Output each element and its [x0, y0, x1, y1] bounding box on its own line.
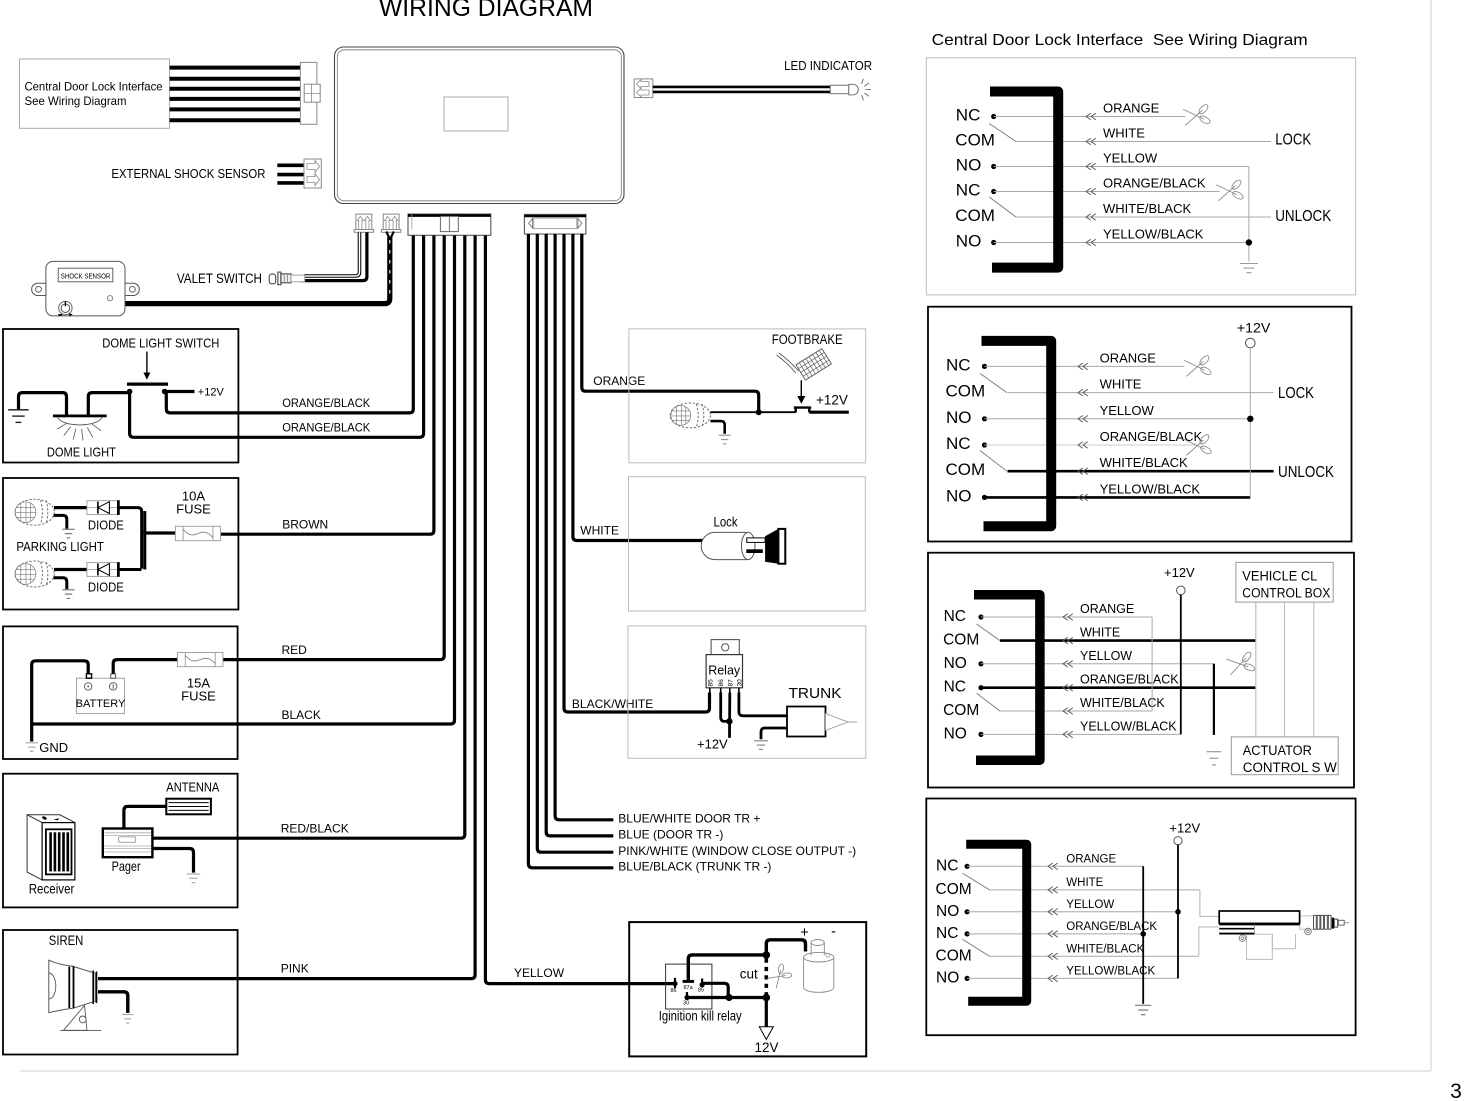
svg-text:ACTUATOR: ACTUATOR — [1243, 743, 1312, 758]
svg-text:ORANGE/BLACK: ORANGE/BLACK — [282, 421, 370, 435]
panel 2 scissors on ORANGE — [1184, 354, 1213, 380]
panel 2 wire +12V feed — [1249, 348, 1251, 498]
panel 3 COM levers — [977, 624, 1001, 711]
door-lock panel 1 box — [926, 58, 1355, 295]
wire footbrake lamp ground lead — [711, 421, 725, 434]
parking light lamp #1 — [15, 499, 54, 525]
siren enclosure box — [3, 930, 238, 1055]
svg-text:YELLOW/BLACK: YELLOW/BLACK — [1100, 481, 1201, 496]
svg-text:NO: NO — [944, 655, 967, 672]
parking light lamp #2 — [15, 561, 54, 587]
panel 1 scissors on ORANGE/BLACK — [1216, 178, 1245, 204]
panel 3 ground (yellow tap) — [1207, 752, 1222, 765]
svg-text:YELLOW: YELLOW — [1080, 649, 1132, 663]
panel 1 wire color labels — [1103, 101, 1206, 242]
footbrake callout box — [629, 329, 866, 463]
label PARKING LIGHT — [16, 539, 104, 554]
svg-text:DIODE: DIODE — [88, 580, 124, 595]
wire lamp1 to diode D1 — [54, 506, 87, 509]
svg-text:LOCK: LOCK — [1275, 132, 1312, 149]
svg-text:CONTROL BOX: CONTROL BOX — [1242, 586, 1330, 601]
svg-text:COM: COM — [936, 947, 972, 964]
svg-text:Receiver: Receiver — [29, 880, 75, 896]
door-lock panel 3 box — [928, 553, 1354, 788]
svg-text:NO: NO — [946, 408, 972, 427]
svg-text:RED: RED — [282, 643, 308, 657]
label BLACK — [282, 708, 321, 722]
svg-text:30: 30 — [683, 1001, 689, 1007]
svg-text:YELLOW/BLACK: YELLOW/BLACK — [1066, 965, 1155, 977]
wire diode D1 junction — [119, 508, 142, 569]
svg-text:ORANGE: ORANGE — [1066, 853, 1116, 865]
svg-text:EXTERNAL SHOCK SENSOR: EXTERNAL SHOCK SENSOR — [111, 166, 265, 181]
wire pin 85 to 12V line — [702, 983, 728, 997]
wire RED (J1-4 to 15A fuse) — [222, 236, 444, 660]
battery enclosure box — [3, 626, 238, 759]
svg-text:BLUE (DOOR TR -): BLUE (DOOR TR -) — [618, 828, 723, 842]
scissors (ignition cut) — [765, 962, 794, 991]
panel 3 arrow marks — [1063, 614, 1073, 738]
label Receiver — [29, 880, 75, 896]
wire siren ground lead — [98, 992, 128, 1013]
svg-text:+12V: +12V — [816, 393, 848, 408]
panel 4 label +12V — [1169, 821, 1200, 836]
label BLUE/BLACK (TRUNK TR -) — [618, 859, 771, 873]
label DIODE (D1) — [88, 518, 124, 533]
wire relay pins 86+87 to +12V — [721, 693, 733, 738]
wire ORANGE/BLACK #1 (J1-1 to dome switch +12V side) — [166, 236, 413, 413]
wire BLACK/WHITE (J2-5 to trunk relay pin 85) — [564, 234, 710, 712]
svg-text:BLUE/BLACK (TRUNK TR -): BLUE/BLACK (TRUNK TR -) — [618, 859, 771, 873]
label Pager — [112, 858, 141, 874]
svg-text:YELLOW: YELLOW — [1100, 403, 1155, 418]
label RED — [282, 643, 308, 657]
label - (coil negative) — [831, 924, 836, 940]
panel 4 junction node (YELLOW/+12V) — [1175, 909, 1181, 915]
fuse 15A — [178, 653, 223, 667]
trunk relay callout box — [628, 626, 866, 758]
svg-text:NO: NO — [956, 156, 982, 175]
panel 2 wire color labels — [1100, 350, 1203, 496]
connector CN2 (3-pin, external shock sensor) — [304, 159, 321, 188]
svg-text:WHITE: WHITE — [1066, 877, 1103, 889]
svg-text:+12V: +12V — [1169, 821, 1200, 836]
svg-text:UNLOCK: UNLOCK — [1278, 464, 1335, 481]
panel 4 connector bracket — [966, 844, 1026, 1001]
svg-text:UNLOCK: UNLOCK — [1275, 208, 1332, 225]
panel 1 junction node (YELLOW/BLACK) — [1246, 239, 1252, 245]
wire BROWN (J1-3 to parking light fuse) — [220, 236, 434, 535]
panel 2 pin contacts — [982, 364, 987, 500]
svg-text:87a: 87a — [684, 985, 694, 991]
svg-text:ANTENNA: ANTENNA — [166, 779, 219, 794]
svg-text:YELLOW/BLACK: YELLOW/BLACK — [1103, 227, 1204, 242]
wire lamp2 ground lead — [54, 578, 67, 589]
wire BLUE DOOR TR- (J2-3 stub) — [546, 234, 613, 836]
trunk release solenoid — [787, 707, 857, 737]
svg-text:COM: COM — [955, 131, 995, 150]
connector CN3 (2-pin, LED) — [634, 79, 653, 98]
label BLACK/WHITE (trunk relay wire) — [572, 697, 653, 711]
panel 4 pin contacts — [965, 864, 970, 981]
label BROWN — [282, 518, 328, 532]
panel 3 wire color labels — [1080, 602, 1179, 733]
panel 2 label +12V — [1237, 319, 1271, 335]
panel 4 COM levers — [963, 873, 990, 956]
dome light switch pointer arrow — [143, 352, 150, 380]
svg-text:CONTROL S W: CONTROL S W — [1243, 760, 1337, 775]
wire BLUE/WHITE DOOR TR+ (J2-4 stub) — [555, 234, 613, 820]
connector CN1 (6-pin, door lock interface) — [300, 62, 320, 124]
connector J2 (7-pin harness) — [524, 214, 586, 234]
svg-text:PINK: PINK — [281, 962, 309, 976]
panel 3 pin contacts — [978, 614, 983, 737]
panel 2 COM levers — [980, 373, 1007, 471]
panel 2 row wires — [985, 366, 1274, 497]
svg-text:+: + — [800, 925, 808, 941]
svg-text:SHOCK SENSOR: SHOCK SENSOR — [61, 271, 111, 280]
svg-text:ORANGE/BLACK: ORANGE/BLACK — [1103, 176, 1206, 191]
footbrake pedal — [777, 349, 832, 380]
panel 4 ground (panel 4) — [1135, 1005, 1151, 1014]
svg-text:cut: cut — [740, 967, 758, 982]
label +12V (footbrake) — [816, 393, 848, 408]
svg-text:ORANGE/BLACK: ORANGE/BLACK — [1080, 673, 1179, 687]
svg-text:RED/BLACK: RED/BLACK — [281, 822, 349, 836]
dome light switch SW2 — [127, 384, 195, 394]
LED indicator wire pair — [653, 87, 830, 92]
svg-text:VEHICLE CL: VEHICLE CL — [1242, 569, 1317, 584]
svg-text:85: 85 — [698, 987, 704, 993]
panel 3 row wires — [981, 617, 1256, 734]
footbrake lamp — [670, 403, 710, 428]
panel 1 ground (panel 1) — [1240, 264, 1258, 273]
3-wire harness to external shock sensor — [277, 165, 304, 183]
panel 4 row wires — [967, 866, 1200, 978]
footbrake arrow — [797, 380, 805, 404]
relay K2 pin 30 — [684, 992, 689, 1000]
svg-text:NO: NO — [936, 903, 959, 920]
battery B1 — [76, 674, 126, 714]
panel 2 label UNLOCK — [1278, 464, 1335, 481]
shock sensor module — [32, 261, 140, 316]
relay K2 pin 85 — [700, 979, 705, 988]
valet switch SW1 — [269, 272, 305, 285]
svg-text:FUSE: FUSE — [176, 502, 211, 517]
panel 3 ACTUATOR CONTROL S W box — [1231, 737, 1338, 775]
panel 1 contact labels NC COM NO — [955, 106, 995, 251]
dome light enclosure box — [3, 329, 238, 463]
callout box: Central Door Lock Interface — [20, 59, 170, 128]
label SIREN — [49, 933, 84, 948]
svg-text:BLACK: BLACK — [282, 708, 321, 722]
wire BLACK (J1-5 to battery ground) — [32, 236, 455, 725]
label YELLOW — [514, 966, 565, 980]
svg-text:Central Door Lock Interface: Central Door Lock Interface — [25, 79, 163, 93]
svg-text:NC: NC — [956, 181, 981, 200]
panel 2 +12V terminal circle — [1246, 338, 1256, 348]
wire battery positive to 15A fuse — [113, 660, 178, 674]
receiver-pager enclosure box — [3, 774, 238, 908]
label 10A FUSE — [176, 489, 211, 517]
door-lock panel 4 box — [926, 799, 1355, 1036]
svg-text:ORANGE: ORANGE — [1103, 101, 1160, 116]
svg-text:ORANGE: ORANGE — [1100, 350, 1157, 365]
label ORANGE/BLACK #1 — [282, 396, 370, 410]
ground GND (battery) — [26, 743, 38, 752]
label BLUE (DOOR TR -) — [618, 828, 723, 842]
wire lamp2 to diode D2 — [54, 568, 87, 571]
svg-text:LOCK: LOCK — [1278, 385, 1315, 402]
label 12V — [754, 1040, 778, 1055]
label EXTERNAL SHOCK SENSOR — [111, 166, 265, 181]
svg-text:ORANGE: ORANGE — [1080, 602, 1134, 616]
svg-text:ORANGE/BLACK: ORANGE/BLACK — [282, 396, 370, 410]
panel 4 junction node (ORANGE/BLACK jumper) — [1140, 931, 1146, 937]
panel 1 COM levers — [989, 124, 1016, 218]
ground (pager) — [187, 874, 201, 883]
wire trunk solenoid ground lead — [761, 728, 787, 739]
svg-text:BROWN: BROWN — [282, 518, 328, 532]
connector P1 (2-pin, valet switch) — [354, 214, 374, 232]
panel 4 wire color labels — [1066, 853, 1157, 977]
shock sensor cable (2-wire) — [125, 232, 394, 304]
svg-text:Central Door Lock Interface S: Central Door Lock Interface See Wiring D… — [932, 32, 1308, 49]
label + (coil positive) — [800, 925, 808, 941]
panel 3 connector bracket — [974, 595, 1040, 760]
valet switch wire (black) — [300, 232, 367, 280]
svg-text:VALET SWITCH: VALET SWITCH — [177, 271, 262, 286]
relay K1 pin numbers 85 86 87 30 — [707, 679, 743, 687]
wire lamp to dome switch — [88, 393, 129, 415]
svg-text:GND: GND — [39, 740, 68, 755]
svg-text:COM: COM — [955, 206, 995, 225]
svg-text:Iginition kill relay: Iginition kill relay — [659, 1009, 742, 1024]
right title: Central Door Lock Interface See Wiring Diagram — [932, 32, 1308, 49]
svg-text:+12V: +12V — [697, 737, 728, 752]
wire PINK/WHITE window close (J2-2 stub) — [537, 234, 613, 852]
svg-text:Relay: Relay — [708, 664, 741, 678]
wire pin 30 to 12V arrow — [687, 994, 770, 1027]
label DIODE (D2) — [88, 580, 124, 595]
svg-text:YELLOW: YELLOW — [1066, 899, 1114, 911]
12V arrow terminal — [759, 1027, 773, 1040]
ground (parking light 1) — [62, 529, 74, 538]
label +12V (dome switch) — [198, 386, 225, 398]
label cut — [740, 967, 758, 982]
svg-text:COM: COM — [943, 702, 979, 719]
svg-text:86: 86 — [718, 679, 725, 687]
label ORANGE (footbrake wire) — [593, 374, 645, 388]
diode D1 — [87, 500, 120, 515]
wire junction to coil + terminal — [766, 940, 805, 953]
label PINK — [281, 962, 309, 976]
panel 3 VEHICLE CL CONTROL BOX — [1236, 562, 1333, 602]
panel 1 wire YELLOW to YELLOW/BLACK jumper — [1248, 167, 1250, 262]
svg-text:LED INDICATOR: LED INDICATOR — [784, 58, 872, 73]
svg-text:NO: NO — [936, 969, 959, 986]
label RED/BLACK — [281, 822, 349, 836]
svg-text:WHITE: WHITE — [1103, 126, 1145, 141]
module display window — [444, 97, 508, 131]
panel 1 scissors on ORANGE — [1183, 103, 1212, 129]
panel 4 +12V terminal circle — [1174, 837, 1182, 845]
ground (footbrake lamp) — [719, 435, 731, 444]
ground (siren) — [122, 1015, 133, 1024]
svg-text:COM: COM — [946, 382, 986, 401]
antenna — [166, 799, 211, 815]
connector P2 (2-pin, shock sensor) — [381, 214, 401, 232]
svg-text:TRUNK: TRUNK — [789, 686, 842, 702]
label +12V (trunk relay) — [697, 737, 728, 752]
panel 4 wire ORANGE jumper to ground — [1142, 866, 1144, 1004]
svg-text:DIODE: DIODE — [88, 518, 124, 533]
svg-text:NO: NO — [946, 486, 972, 505]
svg-text:+12V: +12V — [1164, 565, 1195, 580]
panel 3 control box leads — [1256, 602, 1314, 737]
svg-text:BATTERY: BATTERY — [76, 698, 126, 710]
wire dome ground to lamp — [19, 393, 67, 415]
panel 3 scissors on YELLOW — [1226, 650, 1257, 678]
diode D2 — [87, 562, 120, 577]
wire relay pin 30 to trunk solenoid — [739, 693, 787, 716]
label ANTENNA — [166, 779, 219, 794]
wire battery negative to ground and BLACK — [32, 661, 88, 742]
panel 3 contact labels NC COM NO — [943, 608, 979, 742]
svg-text:BLACK/WHITE: BLACK/WHITE — [572, 697, 653, 711]
label DOME LIGHT SWITCH — [102, 336, 219, 351]
pager — [103, 829, 153, 858]
door-lock panel 2 box — [928, 307, 1352, 542]
panel 2 contact labels NC COM NO — [946, 355, 986, 505]
svg-text:WHITE/BLACK: WHITE/BLACK — [1066, 943, 1144, 955]
panel 2 junction node (YELLOW/+12V) — [1247, 416, 1253, 422]
panel 3 +12V terminal circle — [1177, 586, 1186, 595]
svg-text:COM: COM — [943, 632, 979, 649]
panel 2 arrow marks — [1078, 363, 1088, 501]
svg-text:-: - — [831, 924, 836, 940]
svg-text:YELLOW: YELLOW — [1103, 151, 1158, 166]
LED D1 with rays — [830, 79, 871, 101]
svg-text:+12V: +12V — [198, 386, 225, 398]
panel 1 pin contacts — [991, 114, 996, 245]
panel 3 jumper ORANGE to WHITE/BLACK — [1151, 617, 1153, 711]
parking light enclosure box — [3, 478, 238, 610]
panel 1 label LOCK — [1275, 132, 1312, 149]
alarm control module U1 — [335, 47, 625, 204]
svg-text:WHITE: WHITE — [1100, 377, 1142, 392]
wire pin 87a to coil junction — [688, 955, 766, 980]
label VALET SWITCH — [177, 271, 262, 286]
wire diode D2 junction — [119, 511, 176, 570]
label 15A FUSE — [181, 676, 216, 704]
relay K2 pin 87a — [683, 980, 695, 983]
svg-text:NC: NC — [936, 925, 958, 942]
label TRUNK — [789, 686, 842, 702]
siren horn — [49, 960, 101, 1030]
ignition kill relay box — [629, 922, 866, 1056]
svg-text:Pager: Pager — [112, 858, 141, 874]
svg-text:85: 85 — [707, 679, 714, 687]
valet switch wire (white) — [304, 232, 360, 276]
label BLUE/WHITE DOOR TR + — [618, 811, 760, 825]
panel 4 actuator leads — [1199, 890, 1219, 956]
svg-text:ORANGE: ORANGE — [593, 374, 645, 388]
ground (dome light) — [8, 410, 29, 423]
svg-text:86: 86 — [671, 988, 677, 994]
svg-text:DOME LIGHT: DOME LIGHT — [47, 445, 116, 460]
svg-text:3: 3 — [1450, 1080, 1462, 1101]
svg-text:FOOTBRAKE: FOOTBRAKE — [772, 332, 843, 347]
wire lamp1 ground lead — [54, 515, 67, 528]
door key cylinder — [701, 532, 765, 559]
wire YELLOW (J1-8 to ignition kill relay) — [485, 236, 676, 984]
panel 1 arrow marks — [1086, 113, 1096, 246]
connector J1 (8-pin harness) — [408, 214, 491, 235]
svg-text:NC: NC — [946, 434, 971, 453]
svg-text:+12V: +12V — [1237, 319, 1271, 335]
svg-text:NC: NC — [944, 679, 966, 696]
svg-text:SIREN: SIREN — [49, 933, 84, 948]
svg-text:COM: COM — [936, 881, 972, 898]
wire RED/BLACK (J1-6 to pager) — [152, 236, 464, 839]
svg-text:DOME LIGHT SWITCH: DOME LIGHT SWITCH — [102, 336, 219, 351]
svg-text:Lock: Lock — [714, 514, 739, 530]
6-wire harness to central door lock interface — [170, 68, 301, 121]
svg-text:87: 87 — [727, 679, 734, 687]
ground (parking light 2) — [62, 590, 74, 599]
receiver — [27, 815, 75, 880]
label ORANGE/BLACK #2 — [282, 421, 370, 435]
svg-text:See Wiring Diagram: See Wiring Diagram — [25, 94, 127, 108]
label FOOTBRAKE — [772, 332, 843, 347]
panel 2 connector bracket — [982, 341, 1052, 526]
svg-text:FUSE: FUSE — [181, 689, 216, 704]
svg-text:NO: NO — [944, 725, 967, 742]
svg-text:NC: NC — [936, 857, 958, 874]
lock callout box — [629, 477, 866, 611]
label DOME LIGHT — [47, 445, 116, 460]
panel 4 contact labels NC COM NO — [936, 857, 972, 986]
svg-text:WHITE/BLACK: WHITE/BLACK — [1103, 201, 1191, 216]
label WHITE (lock wire) — [580, 524, 619, 538]
dome light lamp — [53, 415, 107, 441]
svg-text:WHITE: WHITE — [1080, 626, 1120, 640]
svg-text:WHITE/BLACK: WHITE/BLACK — [1100, 455, 1188, 470]
panel 3 wire YELLOW tap to ground — [1213, 664, 1215, 735]
panel 1 row wires — [994, 117, 1271, 243]
svg-text:PARKING LIGHT: PARKING LIGHT — [16, 539, 104, 554]
svg-text:WHITE: WHITE — [580, 524, 619, 538]
svg-text:NC: NC — [944, 608, 966, 625]
panel 1 connector bracket — [990, 92, 1058, 268]
panel 4 wire +12V feed (black) — [1177, 845, 1179, 979]
ignition coil — [804, 940, 834, 993]
panel 3 label +12V — [1164, 565, 1195, 580]
wire WHITE (J2-6 to door lock key cylinder) — [573, 234, 703, 541]
lock striker wedge — [765, 529, 785, 564]
relay K2 pin labels — [671, 985, 705, 1006]
svg-text:30: 30 — [736, 679, 743, 687]
relay K2 pin 86 — [672, 978, 677, 988]
svg-text:YELLOW/BLACK: YELLOW/BLACK — [1080, 719, 1177, 733]
wire cut (dashed) between junctions — [764, 959, 768, 995]
junction node A (coil feed) — [763, 951, 771, 959]
label Lock — [714, 514, 739, 530]
panel 4 door lock actuator — [1219, 911, 1349, 959]
panel 4 arrow marks — [1048, 863, 1058, 982]
wire pager ground lead — [152, 849, 193, 873]
